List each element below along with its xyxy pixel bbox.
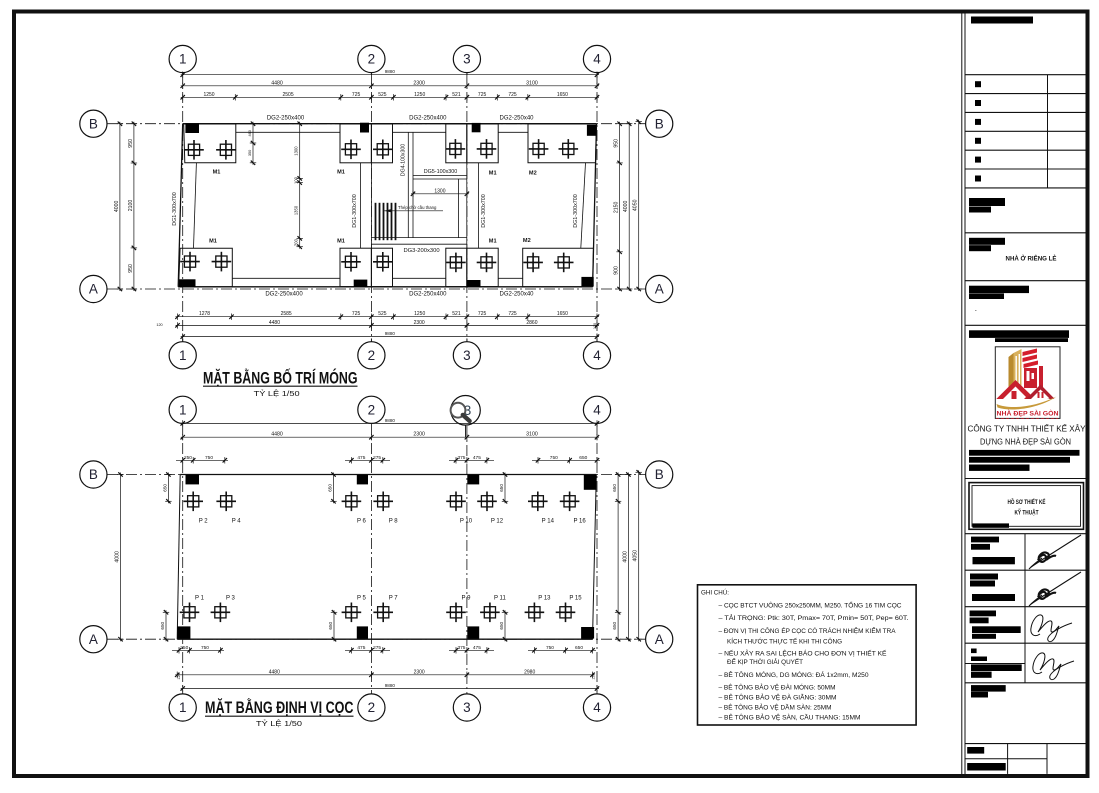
signature row 1 labels — [971, 537, 999, 543]
title underline — [203, 385, 358, 387]
svg-text:475: 475 — [473, 455, 481, 461]
svg-text:1250: 1250 — [414, 311, 425, 317]
footing M1 bottom-left (top plan) — [179, 248, 233, 287]
svg-text:650: 650 — [328, 484, 333, 492]
grid circle B left (top plan) — [80, 110, 107, 137]
column fill at A/3 (top plan) — [467, 280, 481, 287]
svg-text:CÔNG TY TNHH THIẾT KẾ XÂY: CÔNG TY TNHH THIẾT KẾ XÂY — [968, 423, 1086, 433]
dim chain 9880 (top plan bottom) — [181, 331, 600, 340]
footing M1 top at grid 3 (top plan) — [446, 124, 499, 163]
grid circle 4 (top plan, top) — [583, 45, 610, 74]
svg-text:3100: 3100 — [526, 80, 538, 86]
column fill at B/3 (bottom plan) — [467, 475, 479, 485]
pile P7 — [373, 595, 398, 622]
pile offset dims 475/275 at grid2 (bottom plan bottom) — [345, 645, 390, 654]
svg-text:P 1: P 1 — [195, 595, 205, 601]
svg-text:DG2-250x40: DG2-250x40 — [499, 115, 534, 121]
svg-text:200: 200 — [294, 238, 299, 246]
svg-text:2150: 2150 — [614, 201, 620, 213]
outline wall on grid B (top plan) — [183, 123, 597, 125]
revision table row 2 marker — [975, 100, 981, 106]
grid line 1 vertical dash-dot (bottom plan) — [182, 424, 184, 694]
svg-text:4: 4 — [593, 700, 601, 715]
svg-text:DG2-250x400: DG2-250x400 — [409, 115, 447, 121]
footing M2 top-right (top plan) — [528, 124, 597, 163]
svg-text:9880: 9880 — [385, 418, 396, 423]
notes box GHI CHU — [698, 585, 917, 725]
svg-text:100: 100 — [294, 176, 299, 184]
svg-text:A: A — [89, 632, 98, 647]
svg-text:725: 725 — [478, 311, 487, 317]
dim chain 950/2150/900 right (top plan) — [614, 122, 623, 292]
svg-text:DG2-250x40: DG2-250x40 — [499, 291, 534, 297]
grid circle B right (top plan) — [646, 110, 673, 137]
svg-text:M1: M1 — [337, 239, 345, 245]
grid line 3 vertical dash-dot (bottom plan) — [466, 426, 468, 694]
svg-text:2585: 2585 — [281, 311, 292, 317]
svg-text:350: 350 — [248, 150, 252, 156]
revision table row 6 marker — [975, 176, 981, 182]
outline wall on grid A (top plan) — [178, 286, 592, 288]
grid circle A right (bottom plan) — [646, 626, 673, 653]
svg-text:3: 3 — [463, 700, 471, 715]
svg-text:750: 750 — [205, 455, 213, 461]
svg-text:P 5: P 5 — [357, 595, 367, 601]
svg-text:2980: 2980 — [524, 669, 535, 675]
logo house roofs — [996, 380, 1054, 399]
redacted bars: section 2 — [969, 198, 1005, 206]
beam DG1 lines at grid 3 (top plan) — [466, 163, 468, 248]
revision table row 4 marker — [975, 138, 981, 144]
svg-text:250: 250 — [184, 455, 192, 461]
pile P16 — [560, 492, 587, 525]
svg-text:950: 950 — [614, 139, 620, 148]
grid circle 3 (top plan, top) — [453, 45, 480, 74]
grid circle B left (bottom plan) — [80, 461, 107, 488]
bottom table bars — [967, 747, 984, 754]
svg-text:P 10: P 10 — [460, 518, 473, 524]
outline top edge (bottom plan) — [180, 474, 596, 476]
stair note line with arrow — [384, 209, 443, 212]
svg-text:Thép chờ cầu thang: Thép chờ cầu thang — [398, 205, 437, 210]
svg-text:2: 2 — [368, 700, 376, 715]
svg-text:2300: 2300 — [414, 669, 425, 675]
dim chain 4480/2300/2860 (top plan bottom) — [175, 320, 599, 329]
column fill at B/1 (bottom plan) — [186, 475, 200, 485]
svg-text:1650: 1650 — [557, 311, 568, 317]
column fill at A/2 (bottom plan) — [357, 626, 368, 638]
svg-text:4050: 4050 — [633, 199, 639, 211]
svg-text:DG3-200x300: DG3-200x300 — [403, 248, 439, 254]
column fill at B/4 (bottom plan) — [584, 475, 597, 490]
pile P4 — [216, 492, 241, 525]
beam DG3-200x300 lines — [371, 237, 467, 239]
svg-text:650: 650 — [328, 621, 333, 629]
svg-text:650: 650 — [612, 621, 617, 629]
dim 650 bottom near grid2 (bottom plan) — [328, 610, 337, 641]
pile offset dims 750/650 at grid4 (bottom plan top) — [532, 455, 600, 464]
dim 650 bottom near grid1 (bottom plan) — [160, 610, 169, 641]
grid circle A left (top plan) — [80, 275, 107, 302]
svg-text:475: 475 — [357, 455, 365, 461]
column fill at B/2 (bottom plan) — [357, 475, 368, 485]
grid circle 2 (top plan, bottom) — [358, 338, 385, 369]
signature scribble row 3 — [1031, 615, 1072, 642]
grid circle 3 (bottom plan, top) with magnifier cursor — [451, 396, 481, 438]
pile P12 — [477, 492, 504, 525]
grid line A horizontal dash-dot (bottom plan) — [107, 638, 646, 640]
redacted bars below signature table — [971, 685, 1006, 692]
redacted address bars — [969, 450, 1080, 456]
svg-text:P 13: P 13 — [538, 595, 551, 601]
grid line 2 vertical dash-dot (bottom plan) — [370, 424, 372, 694]
svg-text:4: 4 — [593, 402, 601, 417]
svg-text:B: B — [655, 467, 664, 482]
dim chain 4480/2300/3100 (top plan top) — [181, 80, 600, 89]
redacted bars: section 3 — [969, 238, 1005, 245]
dossier double box — [969, 483, 1084, 530]
dim chain 9880 (bottom plan top) — [181, 418, 600, 427]
svg-text:9880: 9880 — [385, 69, 396, 74]
svg-text:B: B — [655, 116, 664, 131]
svg-text:4480: 4480 — [271, 80, 283, 86]
column fill at A/4 (top plan) — [581, 277, 593, 287]
svg-text:750: 750 — [550, 455, 558, 461]
footing M2 bottom-right (top plan) — [523, 248, 594, 287]
svg-text:650: 650 — [575, 645, 583, 651]
column fill at B/3 (top plan) — [472, 123, 481, 132]
outline bottom edge (bottom plan) — [177, 638, 592, 640]
svg-text:650: 650 — [579, 455, 587, 461]
svg-text:P 15: P 15 — [569, 595, 582, 601]
svg-text:P 4: P 4 — [232, 518, 242, 524]
revision table row 3 marker — [975, 119, 981, 125]
pile P3 — [211, 595, 236, 622]
svg-text:521: 521 — [452, 92, 461, 98]
svg-text:NHÀ ĐẸP SÀI GÒN: NHÀ ĐẸP SÀI GÒN — [997, 409, 1059, 418]
dim chain 4480/2300/3100 (bottom plan top) — [181, 432, 600, 441]
svg-text:900: 900 — [614, 266, 620, 275]
stair shaft right wall line — [458, 179, 460, 238]
pile P1 — [180, 595, 205, 622]
svg-text:A: A — [89, 282, 98, 297]
beam DG1 inner slanted line left (top plan) — [194, 163, 197, 248]
column fill at B/2 (top plan) — [360, 123, 369, 133]
signature scribble row 4 — [1033, 653, 1074, 680]
svg-text:DG5-100x300: DG5-100x300 — [424, 169, 458, 175]
logo sub dashes — [996, 418, 1058, 420]
svg-text:P 6: P 6 — [357, 518, 367, 524]
svg-text:NHÀ Ở RIÊNG LẺ: NHÀ Ở RIÊNG LẺ — [1006, 253, 1058, 262]
svg-text:2300: 2300 — [413, 432, 425, 438]
svg-text:DG1-300x700: DG1-300x700 — [172, 192, 178, 226]
svg-text:B: B — [89, 116, 98, 131]
svg-text:475: 475 — [473, 645, 481, 651]
dim 4050 right (top plan) — [633, 119, 642, 291]
svg-text:4480: 4480 — [271, 432, 283, 438]
svg-text:– CỌC BTCT VUÔNG 250x250MM, M: – CỌC BTCT VUÔNG 250x250MM, M250. TỔNG 1… — [719, 601, 902, 610]
svg-text:521: 521 — [452, 311, 461, 317]
dim chain 650 right top (bottom plan) — [612, 472, 621, 641]
column fill at B/4 (top plan) — [587, 125, 597, 136]
svg-text:725: 725 — [352, 311, 361, 317]
grid circle A left (bottom plan) — [80, 626, 107, 653]
beam DG5-100x300 lines — [413, 175, 467, 177]
dim chain 4480/2300/2980 (bottom plan bottom) — [175, 669, 595, 678]
svg-text:275: 275 — [373, 455, 381, 461]
svg-text:MẶT BẰNG ĐỊNH VỊ CỌC: MẶT BẰNG ĐỊNH VỊ CỌC — [205, 698, 354, 717]
grid circle 1 (top plan, bottom) — [169, 338, 196, 369]
column fill at B/1 (top plan) — [185, 124, 199, 134]
svg-text:250: 250 — [180, 645, 188, 651]
grid circle 3 (bottom plan, bottom) — [453, 694, 480, 721]
svg-text:650: 650 — [162, 484, 167, 492]
footing M1 bottom at grid 3 (top plan) — [446, 248, 498, 286]
pile P10 — [446, 492, 473, 525]
dim chain sub (top plan top) — [181, 92, 600, 101]
grid line 1 vertical dash-dot (top plan) — [182, 73, 184, 341]
svg-text:2300: 2300 — [414, 320, 425, 326]
svg-text:1350: 1350 — [294, 205, 299, 215]
svg-text:650: 650 — [499, 621, 504, 629]
svg-text:725: 725 — [478, 92, 487, 98]
svg-text:3: 3 — [463, 348, 471, 363]
svg-text:DG2-250x400: DG2-250x400 — [265, 291, 303, 297]
svg-text:4000: 4000 — [114, 200, 120, 212]
revision table row 5 marker — [975, 157, 981, 163]
svg-text:P 2: P 2 — [199, 518, 209, 524]
svg-text:375: 375 — [457, 455, 465, 461]
dim chain 9880 (bottom plan bottom) — [181, 683, 600, 692]
beam DG2 inner edge top (top plan) — [236, 131, 340, 133]
redacted bars: section 5 — [969, 330, 1069, 338]
grid circle 2 (bottom plan, top) — [358, 396, 385, 423]
grid line 2 vertical dash-dot (top plan) — [370, 73, 372, 341]
pile offset dims 375/475 at grid3 (bottom plan bottom) — [449, 645, 494, 654]
outline right slanted edge (top plan) — [593, 124, 597, 287]
svg-text:GHI CHÚ:: GHI CHÚ: — [701, 588, 729, 597]
svg-text:DG2-250x400: DG2-250x400 — [409, 291, 447, 297]
column fill at A/3 (bottom plan) — [467, 626, 479, 638]
svg-text:1650: 1650 — [557, 92, 568, 98]
svg-text:P 3: P 3 — [226, 595, 236, 601]
svg-text:9880: 9880 — [385, 331, 396, 336]
svg-text:B: B — [89, 467, 98, 482]
svg-text:2: 2 — [368, 52, 376, 67]
dim 650 top near grid2 (bottom plan) — [328, 472, 337, 503]
svg-text:650: 650 — [160, 621, 165, 629]
svg-text:P 9: P 9 — [462, 595, 472, 601]
pile P8 — [373, 492, 398, 525]
dim 4000 right (bottom plan) — [622, 472, 631, 641]
grid line B horizontal dash-dot (bottom plan) — [107, 474, 646, 476]
title underline (bottom plan) — [205, 715, 354, 717]
beam DG2 inner edge bottom (top plan) — [232, 277, 340, 279]
column fill at A/1 (top plan) — [179, 279, 196, 287]
grid line A horizontal dash-dot (top plan) — [107, 288, 646, 290]
svg-text:– TẢI TRỌNG: Ptk: 30T, Pmax=: – TẢI TRỌNG: Ptk: 30T, Pmax= 70T, Pmin= … — [719, 613, 909, 622]
grid circle 2 (bottom plan, bottom) — [358, 694, 385, 721]
grid circle 1 (bottom plan, bottom) — [169, 694, 196, 721]
grid line 4 vertical dash-dot (bottom plan) — [596, 424, 598, 694]
grid circle 4 (bottom plan, top) — [583, 396, 610, 423]
dim 650 top near grid1 (bottom plan) — [162, 472, 171, 503]
dim 1300 (stair) — [411, 188, 469, 197]
svg-text:1300: 1300 — [434, 188, 445, 194]
column fill at A/2 (top plan) — [354, 280, 368, 288]
footing M1 top at grid 2 (top plan) — [340, 124, 393, 163]
beam DG1 inner slanted line right (top plan) — [581, 163, 586, 248]
svg-text:4000: 4000 — [623, 200, 629, 212]
dim 4050 right (bottom plan) — [633, 470, 642, 641]
svg-text:1278: 1278 — [199, 311, 210, 317]
svg-text:M1: M1 — [213, 170, 221, 176]
svg-text:3: 3 — [463, 52, 471, 67]
signature scribble row 1 — [1029, 535, 1081, 569]
svg-text:3100: 3100 — [526, 432, 538, 438]
svg-text:525: 525 — [378, 92, 387, 98]
svg-text:A: A — [655, 632, 664, 647]
outline right slanted edge (bottom plan) — [593, 475, 597, 640]
signature table vertical divider — [1024, 534, 1026, 683]
pile P13 — [525, 595, 552, 622]
grid line 3 vertical dash-dot (top plan) — [466, 73, 468, 341]
svg-text:9880: 9880 — [385, 683, 396, 688]
svg-text:4: 4 — [593, 52, 601, 67]
grid circle B right (bottom plan) — [646, 461, 673, 488]
svg-text:120: 120 — [592, 673, 596, 679]
revision table row 1 marker — [975, 81, 981, 87]
grid circle 4 (bottom plan, bottom) — [583, 694, 610, 721]
beam DG4-100x300 lines — [407, 132, 409, 237]
svg-text:2505: 2505 — [282, 92, 293, 98]
svg-text:M1: M1 — [209, 239, 217, 245]
grid circle 2 (top plan, top) — [358, 45, 385, 74]
pile P9 — [446, 595, 471, 622]
svg-text:DG1-300x700: DG1-300x700 — [573, 194, 579, 228]
pile P15 — [556, 595, 583, 622]
grid line B horizontal dash-dot (top plan) — [107, 123, 646, 125]
svg-text:4050: 4050 — [633, 550, 639, 562]
svg-text:4000: 4000 — [622, 551, 628, 563]
svg-text:4: 4 — [593, 348, 601, 363]
svg-text:750: 750 — [546, 645, 554, 651]
pile offset dims 475/275 at grid2 (bottom plan top) — [345, 455, 390, 464]
beam DG1 lines at grid 2 (top plan) — [360, 163, 362, 248]
dim chain sub (top plan bottom) — [175, 311, 599, 320]
svg-text:P 16: P 16 — [573, 518, 586, 524]
pile P14 — [528, 492, 555, 525]
pile offset dims 375/475 at grid3 (bottom plan top) — [449, 455, 494, 464]
svg-text:1: 1 — [179, 52, 187, 67]
stair rebar hatch lines — [376, 203, 396, 240]
redacted bar: project name — [971, 17, 1033, 24]
dim 4000 left (bottom plan) — [115, 472, 124, 641]
svg-text:2100: 2100 — [128, 200, 134, 212]
bottom table dividers — [1007, 744, 1009, 774]
redacted bar in dossier box — [973, 523, 1010, 527]
svg-text:M1: M1 — [337, 170, 345, 176]
pile P5 — [342, 595, 367, 622]
svg-text:275: 275 — [373, 645, 381, 651]
svg-text:P 7: P 7 — [389, 595, 399, 601]
grid circle 3 (top plan, bottom) — [453, 338, 480, 369]
svg-text:– BÊ TÔNG BẢO VỆ ĐÀI MÓNG: 50: – BÊ TÔNG BẢO VỆ ĐÀI MÓNG: 50MM — [719, 683, 836, 692]
svg-text:– BÊ TÔNG BẢO VỆ ĐÀ GIẰNG: 30: – BÊ TÔNG BẢO VỆ ĐÀ GIẰNG: 30MM — [719, 692, 837, 701]
interior vertical dim chain 1300/100/1350/200 — [294, 122, 303, 249]
svg-text:TỶ LỆ 1/50: TỶ LỆ 1/50 — [254, 389, 300, 398]
dim chain 9880 (top plan top) — [181, 69, 600, 78]
signature row4 sub divider — [965, 663, 1025, 665]
logo gold swoosh — [997, 397, 1057, 410]
svg-text:KỸ THUẬT: KỸ THUẬT — [1015, 508, 1039, 517]
dim 650 bottom near grid3 (bottom plan) — [499, 610, 508, 641]
dim chain 950/2100/950 left (top plan) — [128, 122, 137, 292]
svg-text:– ĐƠN VỊ THI CÔNG ÉP CỌC CÓ T: – ĐƠN VỊ THI CÔNG ÉP CỌC CÓ TRÁCH NHIỆM … — [719, 626, 896, 635]
svg-text:1250: 1250 — [203, 92, 214, 98]
redacted bars: section 4 — [969, 286, 1029, 293]
svg-text:2860: 2860 — [526, 320, 537, 326]
logo gold tower — [1009, 349, 1022, 388]
logo red building — [1023, 349, 1044, 389]
column fill at A/4 (bottom plan) — [581, 627, 594, 639]
svg-text:725: 725 — [508, 311, 517, 317]
svg-text:4000: 4000 — [115, 551, 121, 563]
title block horizontal dividers — [965, 75, 1087, 744]
svg-text:A: A — [655, 282, 664, 297]
footing M1 top-left (top plan) — [184, 124, 236, 163]
dim 650 top near grid3 (bottom plan) — [499, 472, 508, 503]
logo frame — [995, 347, 1060, 419]
pile offset dims 750/650 at grid4 (bottom plan bottom) — [528, 645, 596, 654]
svg-text:1: 1 — [179, 348, 187, 363]
pile offset dims 250/750 at grid1 (bottom plan top) — [176, 455, 228, 464]
outline left slanted edge (bottom plan) — [177, 475, 180, 640]
dim 4000 right (top plan) — [623, 122, 632, 292]
signature row 4 labels — [971, 649, 977, 654]
svg-text:DG1-300x700: DG1-300x700 — [352, 194, 358, 228]
svg-text:725: 725 — [352, 92, 361, 98]
svg-text:DG2-250x400: DG2-250x400 — [267, 115, 305, 121]
pile offset dims 250/750 at grid1 (bottom plan bottom) — [172, 645, 224, 654]
pile P2 — [183, 492, 208, 525]
title block left double line — [961, 14, 963, 775]
pile P11 — [480, 595, 506, 622]
signature row 3 labels — [970, 611, 996, 617]
svg-text:2: 2 — [368, 348, 376, 363]
svg-text:M1: M1 — [489, 239, 497, 245]
title block revision table vertical divider — [1047, 75, 1049, 188]
svg-text:M2: M2 — [523, 238, 531, 244]
svg-text:1: 1 — [179, 402, 187, 417]
signature row 2 labels — [970, 574, 998, 580]
grid circle 1 (bottom plan, top) — [169, 396, 196, 423]
svg-text:460: 460 — [248, 130, 252, 136]
svg-text:120: 120 — [156, 323, 162, 327]
dim chain 460/350 near top-left footing — [248, 122, 256, 166]
svg-text:– BÊ TÔNG MÓNG, DG MÓNG: ĐÁ 1: – BÊ TÔNG MÓNG, DG MÓNG: ĐÁ 1x2mm, M250 — [719, 670, 869, 679]
svg-text:4480: 4480 — [269, 669, 280, 675]
svg-text:950: 950 — [128, 264, 134, 273]
svg-text:950: 950 — [128, 139, 134, 148]
svg-text:650: 650 — [612, 484, 617, 492]
svg-text:P 14: P 14 — [542, 518, 555, 524]
svg-text:650: 650 — [499, 484, 504, 492]
svg-text:725: 725 — [508, 92, 517, 98]
footing M1 bottom at grid 2 (top plan) — [340, 248, 393, 286]
column fill at A/1 (bottom plan) — [177, 626, 190, 638]
svg-text:475: 475 — [357, 645, 365, 651]
